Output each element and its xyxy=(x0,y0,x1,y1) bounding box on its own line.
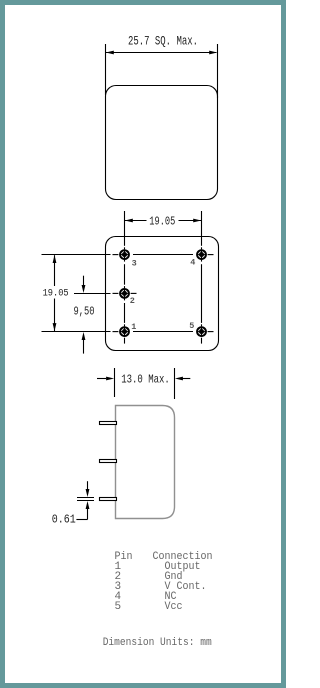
extension line from pin1 to left dims xyxy=(42,331,111,333)
package bottom view outline xyxy=(106,237,219,351)
dimension 9,50 lower arrow xyxy=(82,332,86,354)
dimension 13.0 left inward arrow xyxy=(97,377,114,381)
svg-text:19.05: 19.05 xyxy=(149,214,175,228)
dimension 0.61 lower arrow and leader xyxy=(76,501,89,520)
svg-text:5: 5 xyxy=(115,601,122,613)
pin P1 symbol xyxy=(113,327,129,343)
package side view outline xyxy=(116,406,175,519)
wire pin2 to pin1 xyxy=(124,298,126,326)
wire pin1 to pin5 xyxy=(133,331,193,333)
package top view outline xyxy=(106,86,218,200)
svg-text:3: 3 xyxy=(132,259,137,269)
svg-text:4: 4 xyxy=(190,258,195,268)
side pin 2 (middle) xyxy=(100,460,117,463)
dimension 0.61 upper arrow xyxy=(86,481,90,497)
svg-text:2: 2 xyxy=(130,296,135,306)
pin P2 symbol xyxy=(113,289,137,298)
svg-text:13.0 Max.: 13.0 Max. xyxy=(121,373,170,387)
svg-text:Vcc: Vcc xyxy=(165,601,183,613)
side pin 1 (top) xyxy=(100,422,117,425)
extension line right of 25.7 dim xyxy=(217,44,219,98)
svg-text:5: 5 xyxy=(189,321,194,331)
extension line from pin3 to left dims xyxy=(42,254,111,256)
node tick above pin4 xyxy=(201,247,203,249)
extension line above pin 4 xyxy=(201,211,203,246)
pin P5 symbol xyxy=(197,327,213,343)
node tick above pin3 xyxy=(124,247,126,249)
svg-text:19.05: 19.05 xyxy=(43,288,69,300)
svg-text:25.7 SQ. Max.: 25.7 SQ. Max. xyxy=(128,35,198,49)
dimension line 25.7 with outward arrows xyxy=(106,51,217,55)
dimension line 19.05 horizontal with outward arrows xyxy=(125,219,201,223)
side pin 3 (bottom) xyxy=(100,498,117,501)
svg-text:1: 1 xyxy=(131,322,136,332)
dimension 9,50 upper arrow xyxy=(82,276,86,293)
extension line above pin 3 xyxy=(124,211,126,246)
extension line left of 25.7 dim xyxy=(105,44,107,95)
wire pin3 to pin2 xyxy=(124,259,126,288)
svg-text:0.61: 0.61 xyxy=(52,514,76,527)
wire pin3 to pin4 xyxy=(133,254,193,256)
dimension 13.0 right inward arrow xyxy=(175,377,190,381)
dimension line 19.05 vertical with outward arrows xyxy=(53,255,57,331)
svg-text:Dimension Units: mm: Dimension Units: mm xyxy=(103,637,212,649)
pin P4 symbol xyxy=(197,250,213,259)
svg-text:9,50: 9,50 xyxy=(74,306,95,319)
extension line from pin2 to left dims xyxy=(74,293,111,295)
extension line left of 13.0 dim xyxy=(114,368,116,397)
wire pin4 to pin5 xyxy=(201,259,203,326)
pin P3 symbol xyxy=(113,250,129,259)
extension line right of 13.0 dim xyxy=(174,368,176,399)
extension lines of 0.61 dim xyxy=(77,498,94,501)
